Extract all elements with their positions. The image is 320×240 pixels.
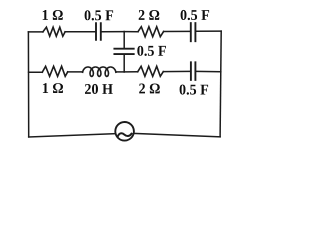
capacitor C3 0.5F vertical plate top	[114, 48, 133, 50]
wire R4 to C4	[163, 70, 189, 72]
wire left edge	[27, 32, 29, 137]
wire source to bottom-right corner	[134, 133, 221, 136]
resistor R4 2ohm middle	[138, 66, 164, 76]
label 2 ohm middle	[139, 84, 160, 94]
resistor R2 2ohm top	[138, 27, 164, 37]
label 1 ohm middle	[43, 83, 63, 93]
wire R2 to C2	[164, 30, 190, 32]
capacitor C2 0.5F top-right plate left	[190, 23, 192, 41]
wire C1 to node A	[102, 31, 124, 33]
wire R1 to C1	[65, 31, 95, 33]
wire C2 to top-right corner	[196, 30, 221, 32]
wire node A to R2	[124, 31, 138, 33]
label 0.5 F top-right	[181, 10, 210, 20]
label 20 H	[85, 84, 113, 94]
wire node B to R4	[124, 71, 138, 73]
wire bottom-left to source	[29, 134, 116, 137]
capacitor C2 0.5F top-right plate right	[194, 23, 196, 41]
wire L1 to node B	[116, 71, 124, 73]
wire R3 to L1	[68, 71, 83, 73]
capacitor C1 0.5F top-left plate left	[95, 23, 97, 40]
label 0.5 F middle-right	[180, 85, 209, 95]
label 0.5 F center cap	[137, 46, 166, 56]
wire right edge	[220, 31, 221, 137]
capacitor C3 0.5F vertical plate bottom	[114, 53, 133, 55]
wire C4 to right edge	[196, 70, 220, 72]
capacitor C4 0.5F middle plate right	[194, 62, 196, 80]
inductor L1 20H	[83, 67, 116, 76]
resistor R3 1ohm middle	[42, 66, 67, 76]
label 0.5 F top-left	[85, 10, 114, 20]
capacitor C1 0.5F top-left plate right	[100, 23, 102, 40]
AC source sine symbol	[118, 133, 132, 136]
label 2 ohm top	[139, 10, 160, 20]
wire middle-left segment	[29, 71, 43, 73]
AC source V circle	[115, 122, 134, 141]
resistor R1 1ohm top-left	[43, 27, 65, 36]
capacitor C4 0.5F middle plate left	[190, 62, 192, 80]
wire node A down to C3	[123, 32, 125, 48]
wire C3 down to node B	[123, 55, 125, 72]
wire top-left segment	[28, 31, 43, 33]
label 1 ohm top	[43, 10, 63, 20]
